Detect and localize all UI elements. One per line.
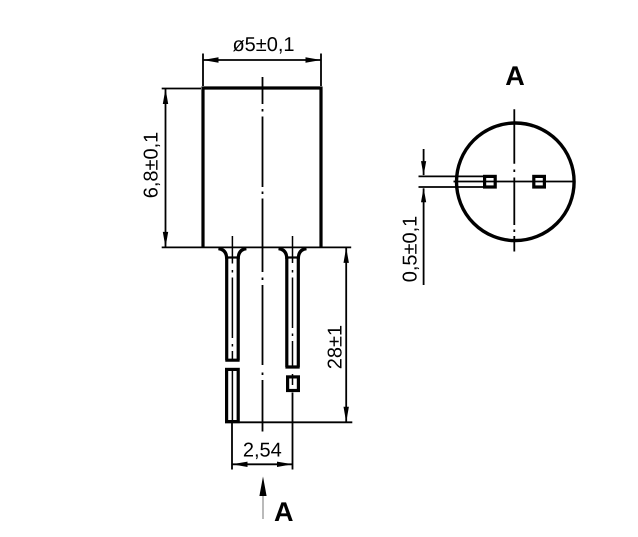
dimension ø5±0,1 : dimension line with arrows: [203, 59, 321, 61]
left lead neck line: [225, 256, 239, 258]
left lead center line: [231, 236, 233, 422]
right lead end square (after break): [288, 377, 299, 391]
left lead upper segment: [225, 258, 239, 360]
svg-text:2,54: 2,54: [243, 439, 282, 461]
svg-text:6,8±0,1: 6,8±0,1: [141, 132, 163, 199]
left lead cross-section square: [485, 176, 496, 187]
svg-text:A: A: [505, 61, 525, 91]
left lead lower segment (after break): [227, 369, 239, 421]
component body outline (front view): [202, 87, 323, 248]
svg-text:A: A: [274, 497, 294, 527]
dimension 28±1 : extension line (bottom, at lead end): [225, 421, 352, 423]
view direction arrow (gray stem): [262, 496, 264, 520]
dimension 6,8±0,1 : dimension line with arrows: [165, 89, 167, 248]
dimension 6,8±0,1 : extension line (top): [162, 88, 201, 90]
circle body outline (view A): [457, 123, 575, 241]
main vertical center line: [262, 77, 264, 432]
right lead flare (trumpet): [279, 249, 307, 259]
dimension ø5±0,1 : extension lines: [203, 54, 321, 87]
dimension 0,5±0,1 : dimension line with arrows: [423, 149, 425, 285]
left lead flare (trumpet): [218, 249, 246, 259]
body bottom line (thin, doubles as extension line for 6,8 and 28 dims): [162, 246, 352, 248]
svg-text:0,5±0,1: 0,5±0,1: [400, 216, 422, 283]
right lead upper segment: [285, 258, 299, 367]
svg-text:ø5±0,1: ø5±0,1: [232, 34, 294, 56]
vertical center line of view A: [513, 109, 515, 251]
horizontal center line of view A: [454, 181, 575, 183]
right lead neck line: [285, 256, 299, 258]
right lead center line: [292, 236, 294, 385]
svg-text:28±1: 28±1: [325, 325, 347, 369]
right lead cross-section square: [534, 176, 545, 187]
dimension 2,54 : dimension line with arrows: [232, 463, 293, 465]
dimension 2,54 : extension lines: [232, 393, 293, 470]
dimension 28±1 : dimension line with arrows: [345, 247, 347, 422]
dimension 0,5±0,1 : extension lines: [419, 176, 485, 187]
view direction arrow head: [259, 477, 266, 497]
